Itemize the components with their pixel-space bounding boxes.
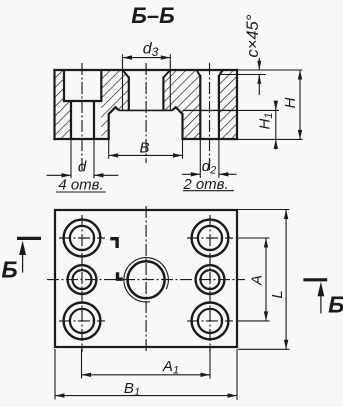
counterbored hole bottom-left outer — [64, 303, 101, 340]
dimension H1 — [257, 101, 279, 150]
counterbored hole top-right inner — [198, 226, 222, 250]
through hole d right wall — [93, 101, 95, 139]
hatched cut area middle-left — [101, 70, 129, 139]
thread arc of central hole — [124, 258, 168, 302]
svg-text:B: B — [139, 140, 149, 157]
svg-text:L: L — [269, 290, 286, 298]
counterbore bottom shoulder — [63, 100, 103, 102]
top edge extension line — [238, 69, 302, 71]
svg-text:Б: Б — [1, 257, 17, 283]
thread d3 thin line left — [122, 54, 124, 110]
hole d2 middle-left inner — [73, 270, 92, 289]
corner mark upper near center hole — [110, 239, 117, 248]
recess slot right wall with corner groove — [172, 107, 183, 140]
hatched cut area right block — [219, 70, 237, 139]
svg-text:Б: Б — [328, 291, 343, 317]
hatched cut area left block — [55, 70, 72, 139]
hole d2 chamfer right — [219, 70, 223, 76]
d3 chamfer left — [123, 70, 129, 78]
section left edge — [53, 69, 55, 140]
svg-text:H: H — [282, 97, 299, 108]
thread d3 thin line right — [169, 54, 171, 110]
counterbore right wall — [100, 70, 102, 101]
section bottom edge left part — [53, 138, 108, 140]
middle row centerline — [47, 279, 245, 281]
chamfer dimension c x 45 — [221, 14, 266, 95]
hole d2 middle-right outer — [196, 265, 225, 294]
dimension d3 — [123, 41, 171, 60]
vertical main centerline — [145, 206, 147, 352]
top row centerline right — [187, 237, 233, 239]
section top edge — [53, 69, 238, 71]
plate outline rectangle — [55, 210, 237, 347]
section mark Б right — [303, 280, 343, 318]
bottom row centerline right — [187, 320, 233, 322]
hole d2 centerline — [209, 63, 211, 171]
recess height extension line — [237, 109, 279, 111]
d3 chamfer right — [163, 70, 170, 78]
through hole d left wall — [70, 101, 72, 139]
dimension B1 — [55, 349, 237, 400]
hole d2 left wall — [199, 75, 201, 139]
corner mark lower near center hole — [118, 272, 123, 279]
bottom row centerline left — [59, 320, 105, 322]
recess ceiling — [119, 109, 172, 111]
svg-text:c×45°: c×45° — [244, 14, 262, 57]
d3 hole left wall — [128, 77, 130, 111]
hatched cut area middle-right — [163, 70, 200, 139]
dimension L — [269, 210, 288, 350]
counterbore left wall — [63, 70, 65, 101]
plan top edge extension — [238, 209, 289, 211]
hole d2 middle-right inner — [201, 270, 220, 289]
counterbored hole top-right outer — [192, 220, 229, 257]
svg-text:d: d — [78, 159, 87, 176]
right column centerline — [209, 215, 211, 352]
counterbored hole bottom-right outer — [192, 303, 229, 340]
chamfer extension line — [221, 74, 266, 76]
hole d2 right wall — [218, 75, 220, 139]
hole d2 chamfer left — [197, 70, 201, 76]
top row centerline left — [59, 237, 105, 239]
counterbored hole top-left inner — [70, 226, 94, 250]
dimension B — [109, 140, 183, 159]
counterbored hole top-left outer — [64, 220, 101, 257]
dimension A1 — [82, 349, 211, 379]
bottom edge extension line — [238, 138, 302, 140]
central threaded hole d3 — [128, 261, 165, 298]
plan bottom edge extension — [238, 348, 289, 350]
bottom row extension — [238, 320, 269, 322]
recess slot left wall with corner groove — [109, 107, 119, 140]
dimension d — [47, 139, 119, 194]
hole d centerline — [81, 63, 83, 171]
svg-text:4 отв.: 4 отв. — [58, 177, 103, 194]
dimension H — [282, 70, 302, 139]
section right edge — [236, 69, 238, 140]
section mark Б left — [1, 238, 41, 282]
svg-text:A: A — [249, 275, 266, 286]
dimension d2 — [182, 139, 237, 193]
d3 hole right wall — [162, 77, 164, 111]
section bottom edge right part — [183, 138, 239, 140]
counterbored hole bottom-left inner — [70, 309, 94, 333]
svg-text:Б–Б: Б–Б — [131, 3, 174, 28]
hole d2 middle-left outer — [68, 265, 97, 294]
top row extension — [238, 237, 269, 239]
d3 centerline — [145, 63, 147, 163]
recess edge visible line across right block — [183, 109, 238, 111]
counterbored hole bottom-right inner — [198, 309, 222, 333]
left column centerline — [81, 215, 83, 352]
dimension A — [249, 238, 269, 321]
